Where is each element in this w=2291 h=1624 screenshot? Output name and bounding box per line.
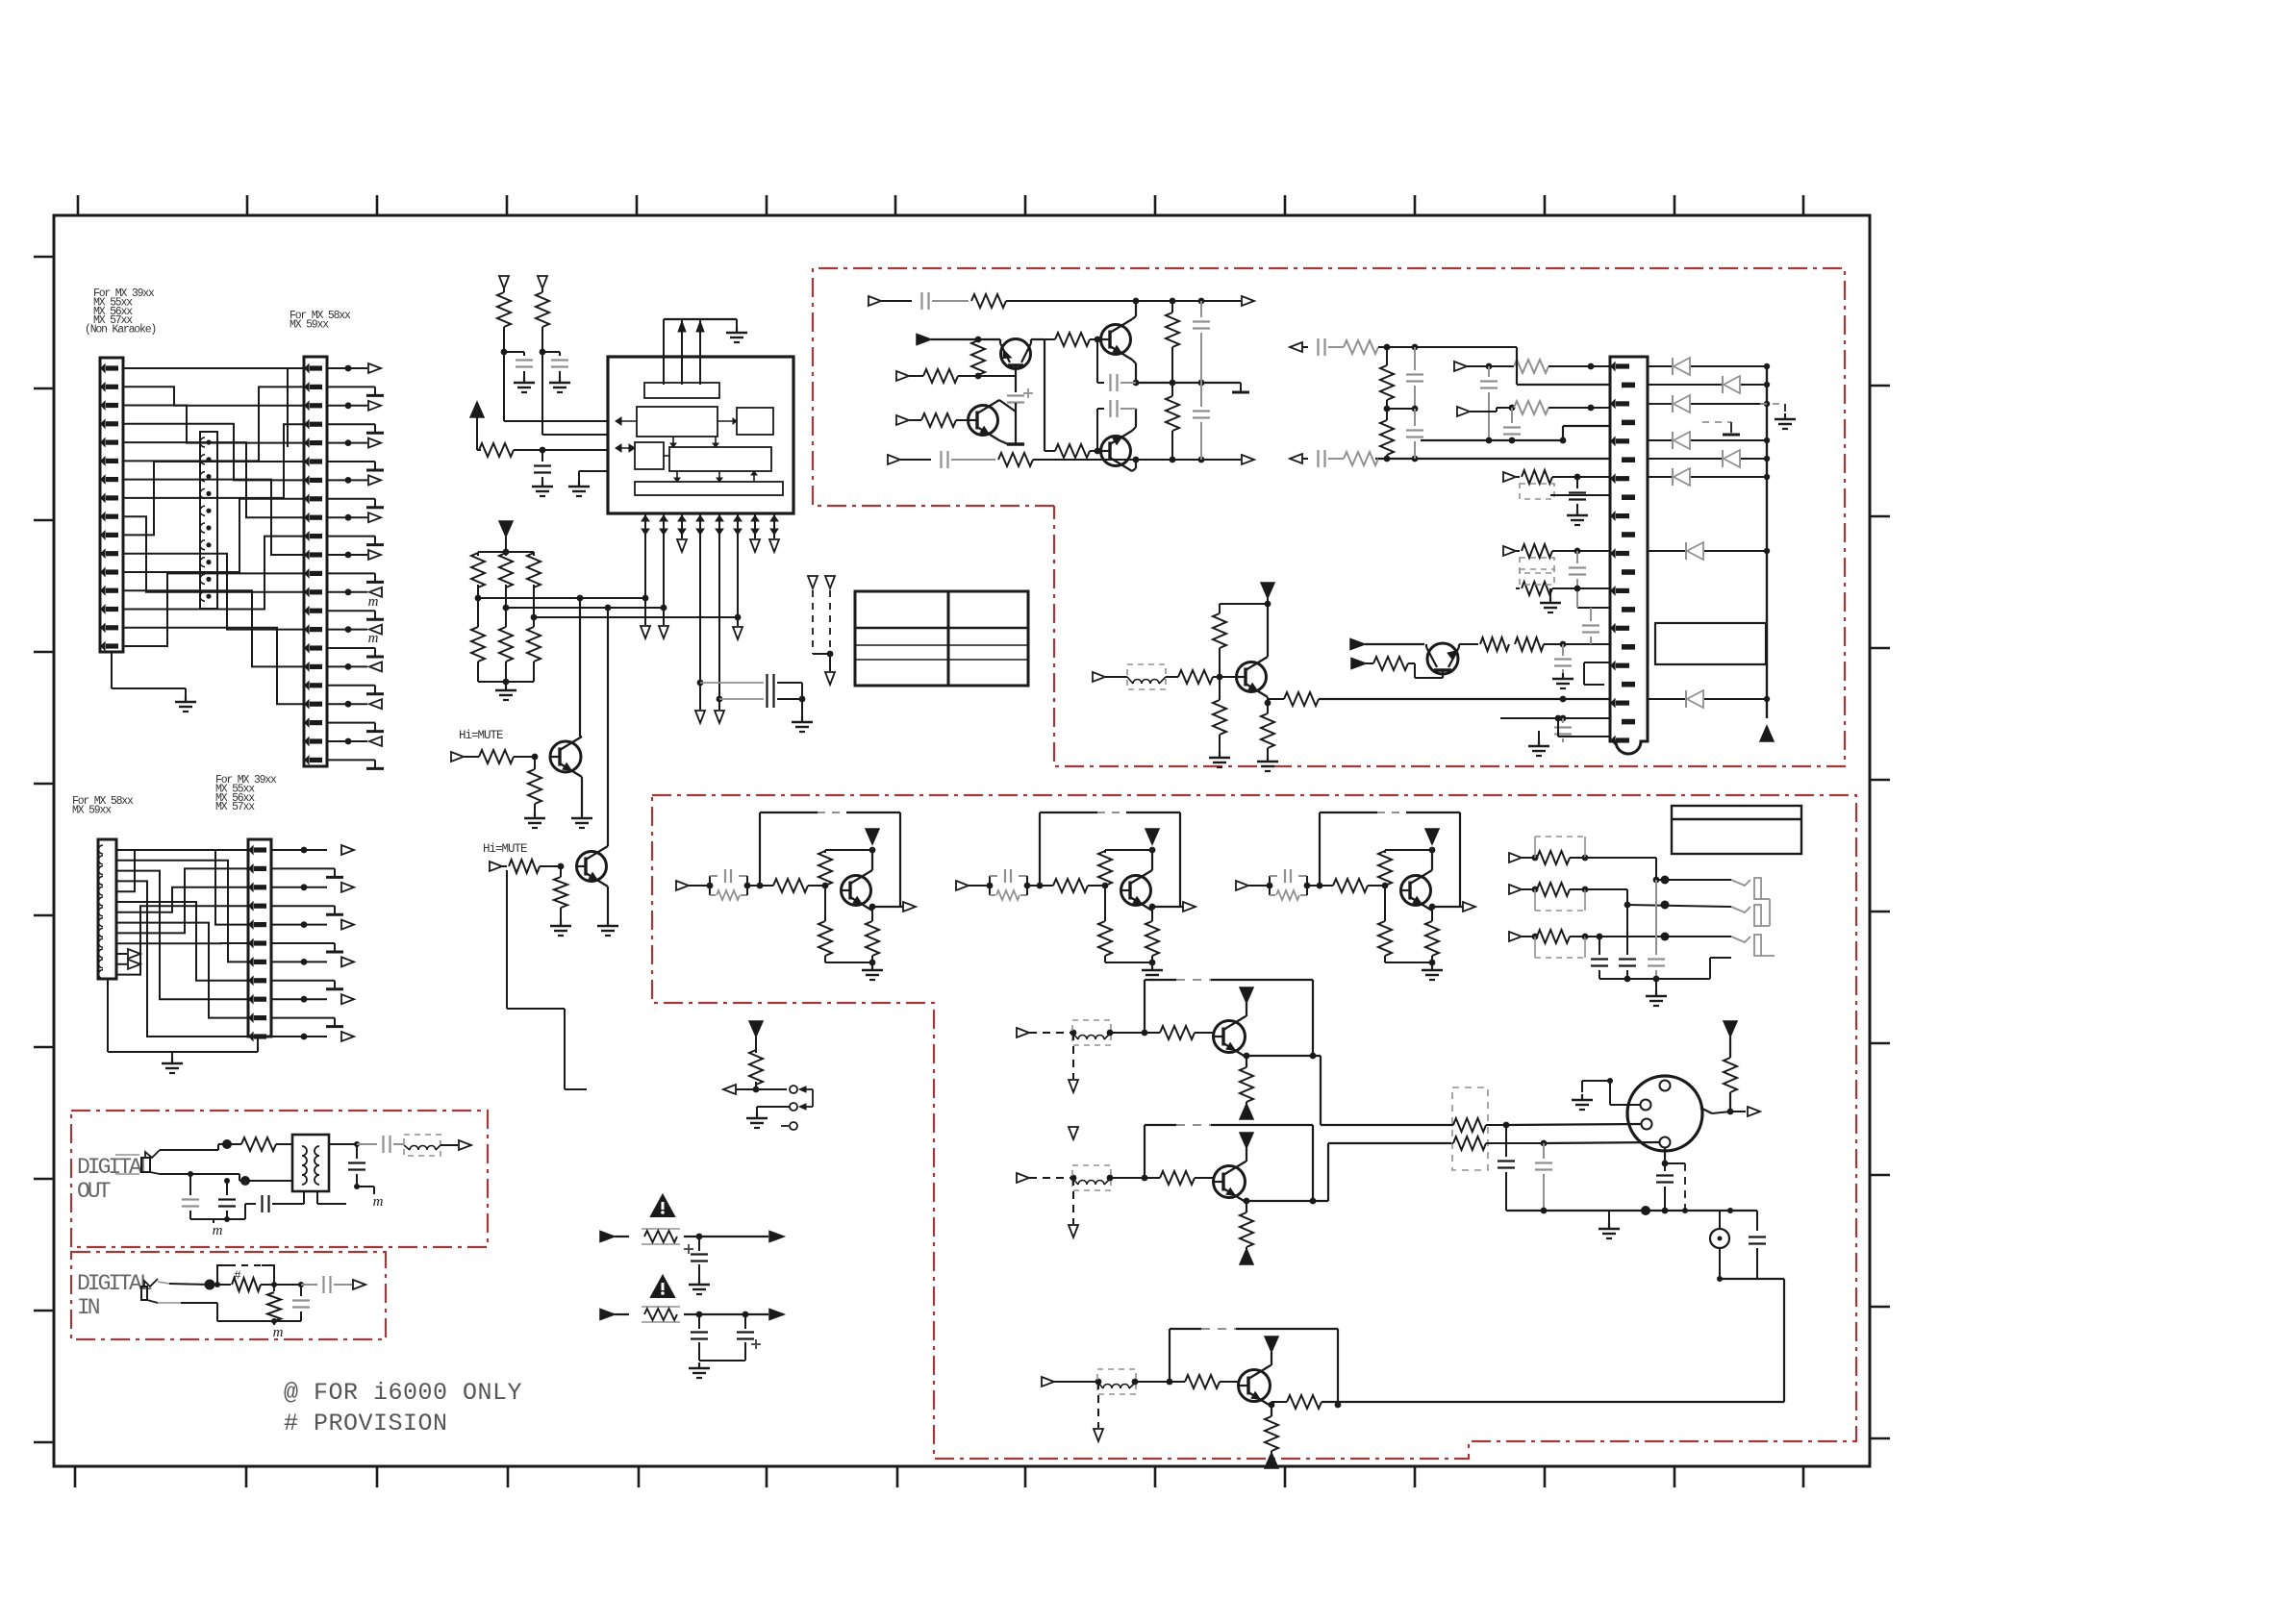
capacitor C24 [1590, 550, 1592, 552]
transistor Q3b [1239, 1370, 1271, 1402]
row3 wire [1585, 936, 1731, 937]
transistor Q32 [1121, 876, 1151, 906]
capacitor C16 [1511, 408, 1513, 423]
bus line A [478, 597, 645, 599]
capacitor C6 [698, 669, 700, 671]
ground G11 [581, 812, 583, 818]
resistor R12 [502, 865, 507, 867]
resistor R5 [505, 552, 507, 556]
CN7 pin 4 [1660, 1137, 1671, 1148]
capacitor C48 (polarized) [698, 1237, 700, 1251]
stage3 output [1432, 906, 1463, 908]
Q1 emitter wire [581, 777, 583, 812]
terminal T6 [695, 711, 705, 723]
jack sleeve wire [190, 1173, 239, 1175]
resistor R52 [1040, 885, 1053, 887]
stage1b output wire [1246, 1055, 1321, 1057]
terminal T23 [1290, 454, 1302, 463]
ferrite bead FB5 [404, 1135, 441, 1156]
capacitor C21 [1576, 477, 1578, 488]
stage2 node [1024, 883, 1031, 889]
resistor R8 [505, 608, 507, 627]
box label LB1 [1655, 623, 1766, 664]
resistor R16 [977, 339, 979, 342]
U1 internal block C [737, 408, 773, 435]
Q7 collector wire [1267, 604, 1269, 657]
terminal T13 [869, 296, 881, 306]
row2 wire [1585, 888, 1627, 890]
resistor R35 [1386, 409, 1388, 420]
CN7 pin 2 [1641, 1100, 1651, 1111]
power arrow P32 [1145, 829, 1159, 844]
U1 internal block E [669, 447, 771, 471]
ground G4 [523, 377, 525, 383]
junction N3 [558, 863, 565, 870]
svg-text:#: # [234, 1268, 241, 1283]
ferrite bead FB3b [1097, 1369, 1136, 1394]
transformer bottom stubs [303, 1191, 305, 1204]
harness bus wires [287, 368, 289, 447]
svg-text:m: m [373, 1194, 384, 1210]
Q6 emitter wire [1132, 427, 1136, 431]
capacitor C52 [226, 1181, 228, 1195]
stage1b input wire [1029, 1032, 1073, 1034]
terminal T16 [1242, 455, 1254, 464]
resistor R32 [1344, 340, 1378, 354]
digital out lower bus [190, 1218, 245, 1220]
transistor Q7 [1237, 662, 1267, 692]
resistor R42 [989, 886, 991, 895]
resistor R1c [1240, 1067, 1253, 1102]
IC U1 (signal processor) [608, 357, 793, 513]
row2 jack wire [1627, 905, 1731, 907]
terminal T1 [499, 276, 509, 288]
resistor R1b [1145, 1032, 1160, 1034]
lamp LP1 [1719, 1211, 1721, 1229]
fuse row 1 output [699, 1236, 768, 1237]
input arrow A2 [1350, 639, 1365, 650]
svg-text:Hi=MUTE: Hi=MUTE [483, 842, 527, 856]
capacitor C17 [1317, 338, 1319, 356]
svg-text:m: m [368, 631, 379, 646]
ground wire to CN7 [1581, 1081, 1583, 1092]
terminal T24 [1503, 472, 1516, 482]
border frame [54, 215, 1870, 1466]
ground G8 [801, 716, 803, 722]
svg-text:OUT: OUT [77, 1179, 111, 1204]
power arrow P3c [1265, 1453, 1278, 1468]
resistor R29 [1459, 643, 1478, 645]
resistor R81 [871, 907, 873, 921]
resistor R91 (with option) [1522, 888, 1535, 890]
U1 internal block A [644, 383, 719, 398]
jack J3 [1731, 937, 1750, 942]
terminal T10 [808, 576, 818, 588]
transistor Q1b [1214, 1021, 1246, 1053]
ground G2 [171, 1058, 173, 1063]
middle box cap C41 [1599, 937, 1600, 955]
wire R2 to C2 [542, 351, 560, 353]
svg-text:MX 59xx: MX 59xx [72, 804, 112, 816]
junction N2 [532, 754, 539, 761]
resistor R34 [1386, 347, 1388, 365]
Q33 collector wire [1431, 850, 1433, 870]
fusible resistor F1 [642, 1228, 680, 1230]
wire row 632 [1577, 607, 1610, 609]
jack J2 [1731, 907, 1750, 912]
capacitor C33 [1269, 876, 1271, 886]
resistor R20 [1045, 450, 1055, 452]
resistor R3b [1170, 1381, 1185, 1383]
terminal T14 [1242, 296, 1254, 306]
terminal T9 [490, 862, 502, 871]
resistor R2c [1240, 1212, 1253, 1247]
resistor R22 [1171, 383, 1173, 396]
terminal T8 [451, 752, 464, 762]
top edge tick marks [77, 195, 80, 215]
power arrow P3 [1261, 583, 1274, 598]
middle box cap C43 [1655, 880, 1657, 955]
resistor R82 [1151, 907, 1153, 921]
resistor R38 (with option) [1516, 587, 1520, 589]
fusible resistor F2 [642, 1306, 680, 1308]
capacitor C25 [1590, 608, 1592, 621]
terminal T22 [1290, 342, 1302, 352]
ground G23 [756, 1112, 758, 1118]
wire R1 to U1 [503, 352, 505, 421]
row wire 1 [1467, 365, 1514, 367]
Q33 emitter wire [1431, 907, 1433, 911]
warning symbol W2 [651, 1276, 674, 1297]
U1 pin 6 wire [737, 535, 739, 626]
terminal T33 [1236, 881, 1248, 890]
transistor Q4 [1101, 325, 1131, 355]
middle box cap C42 [1626, 905, 1628, 955]
capacitor C22 [1576, 551, 1578, 563]
wire bus to ground [1655, 979, 1657, 990]
capacitor C57 [356, 1144, 358, 1159]
power arrow P1b [1240, 987, 1253, 1003]
resistor R92 (with option) [1522, 936, 1535, 937]
DIN connector CN7 [1627, 1076, 1702, 1151]
U1 pin 8 stub [773, 535, 775, 538]
terminal T3a [677, 539, 687, 552]
capacitor C54 [357, 1143, 377, 1145]
Q2 collector wire [607, 608, 609, 846]
capacitor C45 [1543, 1143, 1545, 1159]
stage2b output wire [1246, 1200, 1328, 1202]
Q2b collector [1246, 1161, 1246, 1162]
mid row wire [1136, 382, 1241, 384]
resistor R45 [273, 1285, 275, 1291]
stage2 output [1152, 906, 1183, 908]
optical jack J5 [141, 1287, 147, 1300]
ferrite beads FB4 (pair) [1452, 1087, 1488, 1170]
terminal T52 [1017, 1173, 1029, 1183]
wire R1 to C1 [504, 351, 524, 353]
resistor R37 (with option) [1516, 550, 1520, 552]
ferrite bead FB2b [1072, 1165, 1111, 1190]
ground G33 [1431, 964, 1433, 970]
capacitor C4 [700, 682, 764, 684]
CN2 junction dots [206, 439, 211, 444]
resistor R21 [1171, 301, 1173, 312]
CN7 pin4 wire down [1664, 1148, 1666, 1163]
capacitor C1 [523, 352, 525, 356]
CN5 pin contacts [249, 846, 253, 854]
Q32 emitter wire [1151, 907, 1153, 911]
ground G12 [560, 920, 562, 926]
digital in terminal [353, 1280, 365, 1289]
capacitor C47 [1756, 1211, 1758, 1231]
resistor R41 [709, 886, 711, 895]
stage2 feedback rail [1039, 812, 1041, 886]
bus row wire [1421, 439, 1563, 441]
resistor R15 [998, 453, 1033, 466]
CN3 pin contacts [305, 364, 309, 372]
terminal T5 [733, 627, 743, 639]
stage2 input wire [969, 885, 990, 887]
capacitor C32 [989, 876, 991, 886]
ground G31 [871, 964, 873, 970]
resistor R61 (bias) [824, 883, 826, 886]
stage3b riser [1169, 1329, 1171, 1382]
terminal T53 [1042, 1377, 1054, 1387]
capacitor C12 [1200, 301, 1202, 317]
ground G7 [578, 481, 580, 487]
long row wire [1375, 458, 1610, 460]
terminal T3 [641, 626, 650, 638]
wire row 747 caps [1500, 717, 1610, 719]
ground G13 [607, 920, 609, 926]
ground G24 [698, 1279, 700, 1285]
svg-text:m: m [273, 1325, 284, 1340]
Q4 emitter wire [1132, 360, 1136, 363]
switch SW1 pole 3 [781, 1125, 789, 1127]
terminal T51b [1072, 1033, 1074, 1079]
wire CN7 to output [1712, 1112, 1730, 1113]
transistor Q2 [577, 852, 607, 882]
connector CN6 (output, 21-pin) [1610, 357, 1648, 754]
terminal T3c [769, 539, 779, 552]
connector CN2 (inter-board link) [200, 432, 217, 609]
resistor R53 [1320, 885, 1333, 887]
CN7 pin 1 [1660, 1081, 1671, 1091]
jack label box [1672, 806, 1801, 854]
wire row 515 [1550, 494, 1610, 496]
CN6 pin contacts [1611, 362, 1615, 370]
capacitor C56 [301, 1284, 317, 1286]
terminal T18 [896, 415, 909, 425]
jack J1 [1731, 880, 1750, 886]
stage2 bias rail [1105, 849, 1152, 851]
CN5 no-connect terminations [271, 867, 335, 869]
resistor R2b [1145, 1177, 1160, 1179]
capacitor C15 [1488, 366, 1490, 377]
Q3b collector [1271, 1364, 1271, 1366]
CN7 shield lug [1700, 1108, 1712, 1113]
ground G3 [736, 327, 738, 333]
harness2 input arrows [116, 953, 127, 955]
resistor R43 [1269, 886, 1271, 895]
U1 internal block B [637, 407, 718, 437]
resistor R51 [760, 885, 773, 887]
capacitor C8 [900, 459, 931, 461]
resistor R83 [1431, 907, 1433, 921]
resistor R3c [1265, 1416, 1278, 1451]
capacitor C13 [1200, 383, 1202, 407]
capacitor C19 [1414, 347, 1416, 370]
capacitor C7 [881, 300, 912, 302]
resistor R11 [534, 757, 536, 769]
Q5 emitter wire [999, 440, 1008, 444]
U1 internal arrows [672, 437, 674, 447]
resistor R9 [533, 617, 535, 627]
Q1 collector wire [579, 598, 581, 737]
svg-text:MX 59xx: MX 59xx [290, 318, 329, 331]
junction N1 [540, 447, 546, 454]
resistor R24 [1219, 648, 1221, 677]
svg-text:# PROVISION: # PROVISION [284, 1410, 448, 1437]
resistor R2 [541, 288, 543, 292]
terminal T11 [825, 576, 835, 588]
resistor R7 [477, 598, 479, 627]
stage3 emitter bus [1385, 962, 1432, 963]
capacitor C31 [709, 876, 711, 886]
resistor R3 [477, 449, 481, 451]
U1 left edge input arrows [616, 417, 621, 425]
power arrow P33 [1425, 829, 1439, 844]
connector CN5 (right, lower harness) [248, 839, 271, 1037]
terminal T53b [1097, 1382, 1099, 1428]
power arrow P5 [1724, 1021, 1737, 1037]
stage3b output resistor R40 [1271, 1401, 1287, 1403]
stage3b input wire [1054, 1381, 1098, 1383]
fuse row 1 input [600, 1232, 615, 1242]
dash-dot boundary DIGITAL OUT [71, 1111, 488, 1247]
stage1b bead junction [1107, 1030, 1114, 1037]
transistor Q3 [1001, 339, 1031, 369]
resistor R72 [1104, 886, 1106, 921]
row wire 2 [1470, 411, 1497, 412]
jack sleeve returns [1761, 898, 1770, 900]
terminal T7 [715, 711, 724, 723]
wire Q3 to rail [1031, 338, 1045, 340]
fuse row 2 output [769, 1310, 784, 1320]
terminal T25 [1503, 546, 1516, 556]
ground G16 [1562, 673, 1564, 679]
terminal T21 [1457, 407, 1470, 416]
stage2b input wire [1029, 1177, 1073, 1179]
capacitor C27 [1562, 718, 1564, 723]
U1 pin 3 stub [681, 535, 683, 538]
supply bus [1766, 366, 1768, 718]
ground G10 [534, 812, 536, 818]
capacitor C10 [1096, 339, 1098, 383]
power arrow P2b [1240, 1133, 1253, 1148]
CN3 no-connect terminations [327, 386, 375, 387]
network bottom bus [478, 681, 534, 683]
transistor Q33 [1401, 876, 1431, 906]
connector CN3 (right, 22-pin) [304, 357, 327, 766]
Q31 emitter wire [871, 907, 873, 911]
terminal T12 [825, 672, 835, 685]
CN4-CN5 harness wires [116, 850, 248, 925]
fuse row 2 input [600, 1310, 615, 1320]
resistor R18 [909, 419, 921, 421]
terminal T31 [676, 881, 689, 890]
jack J4 wires [160, 1149, 218, 1151]
transistor Q2b [1214, 1166, 1246, 1198]
termination bar B2 [1240, 383, 1242, 392]
stage1 feedback rail [759, 812, 761, 886]
U1 bottom pin arrows [644, 513, 646, 535]
ground G5 [559, 377, 561, 383]
wire to DIN pin3 [1506, 1124, 1641, 1125]
input arrow A1 [917, 335, 931, 345]
resistor R90 (with option) [1522, 857, 1535, 859]
row4 junctions [1133, 457, 1140, 463]
chassis ground M5 [273, 1321, 275, 1325]
stage2b terminal arrow 2 [1069, 1127, 1078, 1139]
Q5 collector wire [999, 400, 1016, 412]
wire network to ground [505, 682, 507, 685]
CN1 pin contacts [101, 364, 105, 372]
capacitor C3 [541, 450, 543, 462]
U1 pin 5 wire [718, 535, 720, 710]
CN5 output wires and terminals [271, 849, 327, 851]
switch SW1 wiper [756, 1088, 787, 1090]
resistor R30 [1514, 360, 1548, 373]
resistor R28 [1373, 657, 1408, 670]
Q4 collector wire [1132, 316, 1136, 319]
power arrow P1c [1240, 1104, 1253, 1119]
capacitor C51 [189, 1174, 191, 1195]
stage3 feedback rail [1319, 812, 1321, 886]
bottom edge tick marks [74, 1466, 77, 1487]
capacitor C5 [719, 698, 764, 700]
resistor R31 [1514, 401, 1548, 414]
harness ground wire [111, 652, 113, 688]
bus line B [506, 607, 664, 609]
stage3 input wire [1248, 885, 1270, 887]
ground G21 [1581, 1094, 1583, 1100]
resistor R13 [560, 866, 562, 877]
stage3 node [1304, 883, 1311, 889]
power arrow P4 [1760, 726, 1774, 741]
resistor R14 [971, 294, 1006, 308]
wire caps to ground [801, 683, 803, 716]
stage3b bead junction [1132, 1379, 1139, 1386]
capacitor C55 [300, 1285, 302, 1296]
capacitor C2 [559, 352, 561, 356]
power arrow P2c [1240, 1249, 1253, 1264]
svg-text:MX 57xx: MX 57xx [215, 801, 255, 813]
resistor R19 [1045, 338, 1055, 340]
terminal T41 [1509, 885, 1522, 894]
dashed option wire row 420 [1702, 421, 1731, 423]
CN1-CN3 harness wires [123, 367, 304, 369]
resistor R43 [227, 1143, 241, 1145]
svg-text:m: m [368, 594, 379, 610]
wire row 766 stub [1558, 736, 1610, 737]
right edge tick marks [1870, 385, 1890, 387]
terminal T3b [750, 539, 760, 552]
audio ground bus [1506, 1210, 1757, 1212]
ground G17 [1576, 510, 1578, 515]
bead output junctions [1503, 1122, 1510, 1129]
ground G19 [1538, 740, 1540, 746]
